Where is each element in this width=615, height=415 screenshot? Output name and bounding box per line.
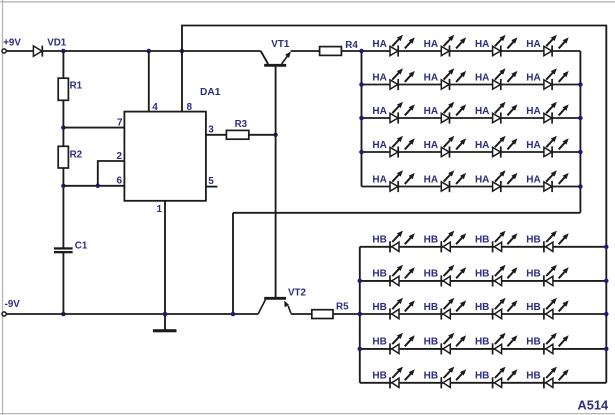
LED HA row 4 col 2 (441, 136, 466, 158)
junction pin1 / -9V (163, 312, 168, 317)
svg-text:HA: HA (526, 140, 540, 151)
svg-text:HB: HB (526, 337, 540, 348)
terminal -9V (2, 312, 6, 316)
LED HB row 5 col 4 (544, 367, 569, 389)
LED HB row 3 col 2 (441, 298, 466, 320)
LED HA row 1 col 4 (544, 35, 569, 57)
svg-text:HB: HB (526, 235, 540, 246)
svg-text:HA: HA (475, 106, 489, 117)
svg-text:HB: HB (475, 337, 489, 348)
svg-text:VD1: VD1 (47, 38, 67, 49)
resistor R3 (226, 130, 248, 139)
svg-text:R3: R3 (235, 119, 248, 130)
svg-text:HB: HB (475, 235, 489, 246)
LED HA row 5 col 2 (441, 170, 466, 192)
op-amp U1 body (timer DA1) (124, 112, 205, 201)
LED HA row 3 col 3 (493, 102, 518, 124)
svg-text:HB: HB (475, 269, 489, 280)
junction HB left rail row 2 (358, 279, 363, 284)
junction pin2/pin6 (96, 184, 101, 189)
wire HA row 3 (362, 117, 581, 119)
LED HB row 2 col 1 (390, 265, 415, 287)
wire VT2 emitter to R5 (291, 313, 313, 315)
wire -9V rail (6, 313, 258, 315)
junction +9V / R1 (61, 49, 66, 54)
LED HA row 4 col 4 (544, 136, 569, 158)
svg-text:2: 2 (117, 151, 123, 162)
LED HB row 2 col 2 (441, 265, 466, 287)
LED HB row 2 col 4 (544, 265, 569, 287)
svg-text:1: 1 (157, 204, 163, 215)
terminal +9V (2, 49, 6, 53)
svg-text:HB: HB (372, 337, 386, 348)
LED HB row 1 col 3 (493, 231, 518, 253)
svg-text:HA: HA (424, 39, 438, 50)
svg-text:HA: HA (424, 140, 438, 151)
LED HB row 5 col 3 (493, 367, 518, 389)
svg-text:A514: A514 (578, 398, 609, 413)
resistor R1 (58, 78, 68, 100)
svg-text:8: 8 (187, 102, 193, 113)
junction pin7 node (61, 125, 66, 130)
wire R4 to HA rail (341, 50, 362, 52)
LED HA row 1 col 1 (390, 35, 415, 57)
junction HA right rail row 5 (578, 184, 583, 189)
LED HA row 3 col 4 (544, 102, 569, 124)
resistor R2 (58, 146, 68, 168)
wire HB row 2 (360, 280, 607, 282)
svg-text:4: 4 (152, 102, 158, 113)
svg-text:HA: HA (372, 140, 386, 151)
junction HA left rail row 1 (359, 49, 364, 54)
LED HB row 1 col 1 (390, 231, 415, 253)
junction HA left rail row 4 (359, 150, 364, 155)
wire VT1-VT2 base line (275, 65, 277, 297)
svg-text:HB: HB (424, 302, 438, 313)
svg-text:-9V: -9V (5, 299, 21, 310)
wire pin5 stub (206, 186, 218, 188)
svg-text:HB: HB (526, 302, 540, 313)
LED HA row 2 col 1 (390, 68, 415, 90)
capacitor C1 bottom plate (54, 251, 73, 253)
LED HA row 4 col 3 (493, 136, 518, 158)
wire HA left rail (361, 51, 363, 187)
wire HB left rail (359, 247, 361, 383)
junction -9V / return (231, 312, 236, 317)
wire HA return vertical (232, 213, 234, 314)
svg-text:R5: R5 (336, 302, 349, 313)
junction HB left rail row 3 (358, 312, 363, 317)
junction HA right rail row 3 (578, 116, 583, 121)
LED HA row 4 col 1 (390, 136, 415, 158)
LED HB row 2 col 3 (493, 265, 518, 287)
LED HA row 5 col 4 (544, 170, 569, 192)
junction base node (273, 133, 278, 138)
wire pin8 (181, 51, 183, 112)
svg-text:HA: HA (372, 174, 386, 185)
svg-text:HB: HB (526, 371, 540, 382)
junction HB right rail row 4 (604, 347, 609, 352)
wire HA row 4 (362, 151, 581, 153)
wire R3 to base node (249, 134, 276, 136)
LED HB row 5 col 1 (390, 367, 415, 389)
wire R1-R2 chain (62, 51, 64, 248)
svg-text:HA: HA (424, 72, 438, 83)
LED HB row 3 col 3 (493, 298, 518, 320)
wire pin7 (63, 127, 124, 129)
svg-text:HB: HB (372, 302, 386, 313)
junction HA left rail row 2 (359, 82, 364, 87)
svg-text:HB: HB (372, 371, 386, 382)
LED HB row 1 col 2 (441, 231, 466, 253)
LED HB row 3 col 1 (390, 298, 415, 320)
transistor VT1 (264, 52, 291, 66)
LED HA row 2 col 4 (544, 68, 569, 90)
wire VT1 emitter to R4 (291, 50, 320, 52)
wire +9V rail (42, 50, 260, 52)
LED HA row 3 col 2 (441, 102, 466, 124)
svg-text:HA: HA (372, 72, 386, 83)
LED HA row 2 col 3 (493, 68, 518, 90)
LED HB row 4 col 3 (493, 333, 518, 355)
svg-text:HA: HA (475, 174, 489, 185)
wire HA row 1 (362, 50, 581, 52)
svg-text:HA: HA (526, 39, 540, 50)
junction HA right rail row 4 (578, 150, 583, 155)
svg-text:HA: HA (424, 174, 438, 185)
resistor R4 (320, 47, 342, 56)
junction HA left rail row 3 (359, 116, 364, 121)
wire R5 to HB rail (333, 313, 360, 315)
svg-text:6: 6 (117, 176, 123, 187)
ground (153, 329, 177, 332)
LED HA row 5 col 1 (390, 170, 415, 192)
svg-text:VT1: VT1 (271, 39, 290, 50)
svg-text:HB: HB (424, 269, 438, 280)
svg-text:5: 5 (208, 176, 214, 187)
LED HB row 5 col 2 (441, 367, 466, 389)
wire HB row 3 (360, 313, 607, 315)
capacitor C1 top plate (54, 247, 73, 249)
svg-text:R4: R4 (345, 40, 358, 51)
LED HA row 1 col 3 (493, 35, 518, 57)
svg-text:VT2: VT2 (288, 287, 307, 298)
svg-text:HA: HA (526, 72, 540, 83)
wire +9V input (6, 50, 33, 52)
LED HB row 4 col 1 (390, 333, 415, 355)
junction HA right rail row 2 (578, 82, 583, 87)
junction HB left rail row 4 (358, 347, 363, 352)
LED HA row 2 col 2 (441, 68, 466, 90)
svg-text:HA: HA (475, 140, 489, 151)
wire pin4 (148, 51, 150, 112)
junction HB right rail row 1 (604, 245, 609, 250)
LED HB row 4 col 2 (441, 333, 466, 355)
junction -9V / C1 (61, 312, 66, 317)
wire HB row 1 (360, 246, 607, 248)
junction pin6 node (61, 184, 66, 189)
svg-text:HA: HA (372, 39, 386, 50)
svg-text:HA: HA (475, 72, 489, 83)
LED HA row 1 col 2 (441, 35, 466, 57)
wire C1 to -9V (62, 251, 64, 314)
wire HB row 5 (360, 382, 607, 384)
svg-text:R2: R2 (70, 150, 83, 161)
LED HB row 3 col 4 (544, 298, 569, 320)
svg-text:+9V: +9V (3, 38, 21, 49)
LED HB row 1 col 4 (544, 231, 569, 253)
LED HB row 4 col 4 (544, 333, 569, 355)
wire HB row 4 (360, 348, 607, 350)
svg-text:HA: HA (372, 106, 386, 117)
junction HB right rail row 3 (604, 312, 609, 317)
wire pin3 to R3 (206, 134, 227, 136)
transistor VT2 (258, 298, 291, 314)
svg-text:C1: C1 (75, 240, 88, 251)
svg-text:HA: HA (526, 106, 540, 117)
svg-text:HB: HB (424, 337, 438, 348)
wire HA row 2 (362, 84, 581, 86)
wire VT1 collector lead (261, 51, 268, 64)
wire HA return horizontal (233, 212, 580, 214)
LED HA row 5 col 3 (493, 170, 518, 192)
svg-text:HA: HA (424, 106, 438, 117)
svg-text:HA: HA (526, 174, 540, 185)
svg-text:7: 7 (117, 117, 123, 128)
wire HA row 5 (362, 186, 581, 188)
junction HB right rail row 2 (604, 279, 609, 284)
junction +9V / pin4 (147, 49, 152, 54)
wire HA right rail (579, 51, 581, 213)
svg-text:HB: HB (424, 235, 438, 246)
resistor R5 (312, 310, 333, 319)
svg-text:DA1: DA1 (200, 87, 221, 98)
svg-text:HB: HB (475, 371, 489, 382)
svg-text:HB: HB (526, 269, 540, 280)
LED HA row 3 col 1 (390, 102, 415, 124)
diode VD1 (33, 46, 42, 57)
svg-text:HB: HB (424, 371, 438, 382)
svg-text:HB: HB (372, 269, 386, 280)
svg-text:R1: R1 (70, 80, 83, 91)
svg-text:HA: HA (475, 39, 489, 50)
junction +9V / pin8 (180, 49, 185, 54)
svg-text:HB: HB (372, 235, 386, 246)
wire top loop (182, 26, 606, 383)
wire pin2 loop (98, 161, 125, 186)
wire pin6 (63, 185, 124, 187)
svg-text:HB: HB (475, 302, 489, 313)
wire pin1 (164, 201, 166, 330)
